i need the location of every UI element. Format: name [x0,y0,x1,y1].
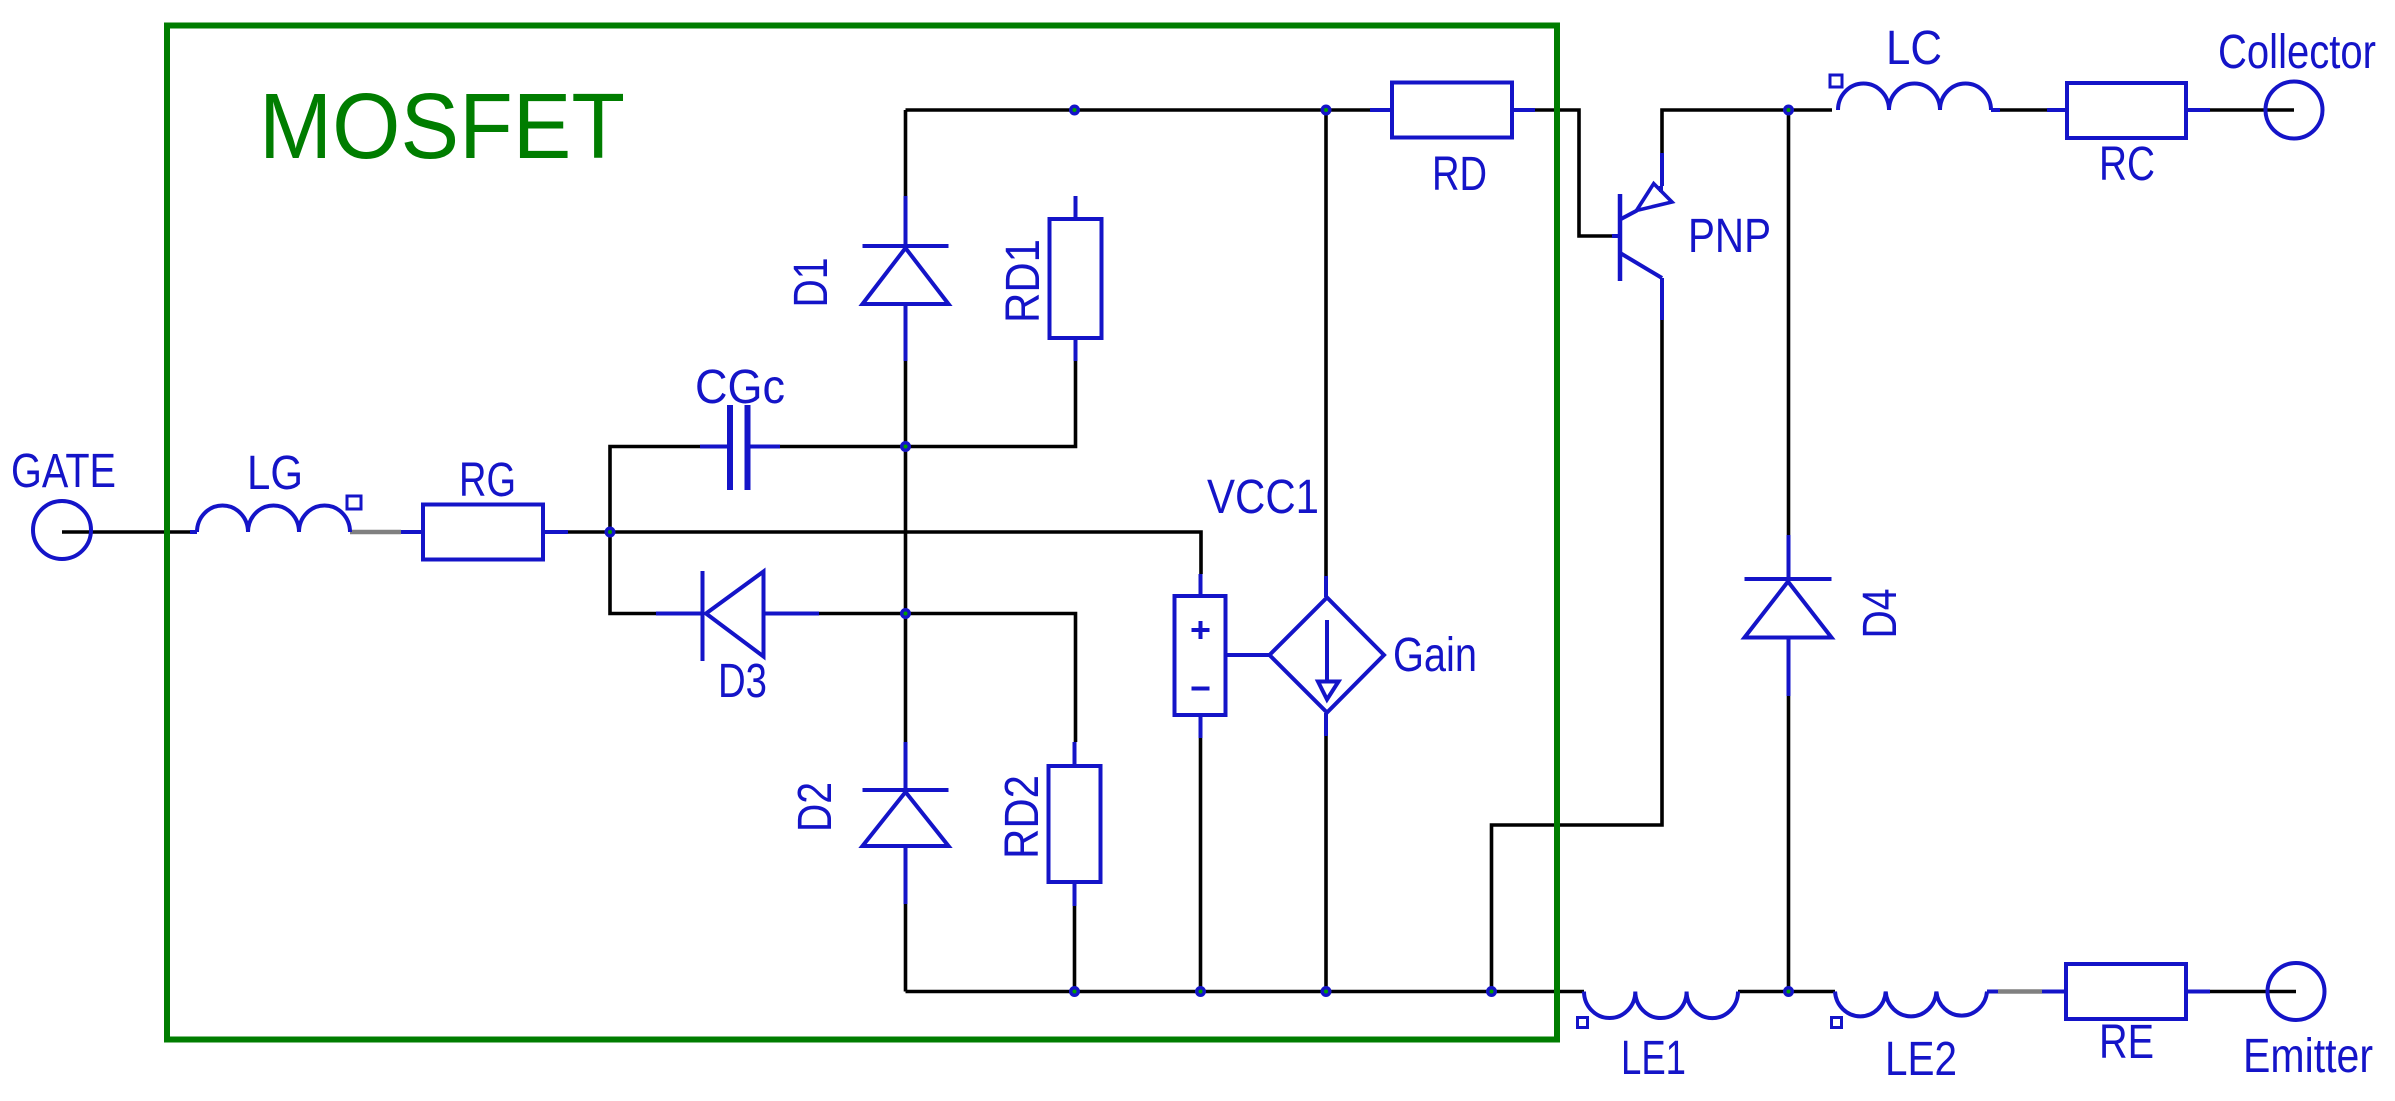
wire RD2 bottom to rail [1073,906,1077,992]
gray net segment LE2-RE [1998,989,2042,994]
port circle Collector [2266,82,2323,139]
LE1 polarity square [1578,1018,1588,1028]
wire gate node vertical (cap wire / D3 wire) [610,447,700,614]
wire RC to Collector [2210,108,2294,112]
svg-text:RG: RG [459,454,516,507]
lead RE left [2042,990,2066,994]
inductor LE2 [1835,992,1987,1017]
junction node cap/D1 [900,441,911,452]
lead RD1 bottom [1074,338,1078,361]
wire LC to RC [2000,108,2047,112]
svg-text:D3: D3 [718,655,767,708]
PNP base bar [1618,194,1623,281]
lead RD2 top [1073,742,1077,766]
LC polarity square [1830,75,1842,87]
source VCC1 box [1175,596,1226,715]
lead RG right [543,530,568,534]
lead VCC1 top [1199,574,1203,596]
lead LE2 right [1987,990,1998,994]
junction node LE1/LE2/D4 [1783,986,1794,997]
svg-text:D2: D2 [789,782,842,832]
resistor RD2 [1049,766,1101,882]
junction node gate (RG output) [605,527,616,538]
diode D3 [703,571,764,661]
port circle Emitter [2268,963,2325,1020]
lead PNP base [1612,234,1619,238]
lead D3 left [656,612,701,616]
transistor PNP [1620,184,1672,281]
diode D2 [863,790,949,846]
wire bottom rail [906,990,1585,994]
wire top rail [906,108,1371,112]
wire between LE1 and LE2 [1738,990,1835,994]
lead CGc left [700,445,727,449]
VCC1 minus sign [1192,687,1210,691]
wire D4 column upper [1787,110,1791,535]
resistor RG [423,505,543,560]
wire Gain column top [1324,110,1328,576]
resistor RE [2066,964,2186,1019]
VCC1 to Gain link [1226,653,1270,657]
inductor LC [1838,84,1991,111]
svg-text:PNP: PNP [1688,210,1771,263]
lead D4 bottom [1787,638,1791,697]
lead RD right [1512,108,1535,112]
junction node Gain bottom rail [1321,986,1332,997]
PNP collector diagonal [1621,254,1662,279]
inductor LG [197,506,350,533]
wire D1/D2 column top rail to D1 [904,110,908,196]
svg-text:LE2: LE2 [1885,1033,1957,1086]
junction node D3/D2 [900,608,911,619]
svg-text:LE1: LE1 [1621,1032,1686,1085]
resistor RD1 [1050,219,1102,338]
svg-text:CGc: CGc [695,361,785,414]
Gain arrow [1325,620,1329,680]
svg-text:LC: LC [1886,22,1942,75]
resistor RC [2067,83,2186,138]
wire RD to PNP base [1535,110,1612,236]
junction node emitter/D4/LC [1783,105,1794,116]
gray net segment LG-RG [350,530,401,535]
wire D3 to RD2 top corner [819,614,1076,743]
lead PNP collector [1660,278,1664,320]
inductor LE1 [1584,992,1738,1019]
lead PNP emitter [1660,153,1664,186]
svg-text:D1: D1 [785,258,838,308]
lead D1 top [904,196,908,246]
lead D3 right [764,612,820,616]
lead RD2 bottom [1073,882,1077,906]
lead RG left [401,530,423,534]
junction node RD1 top [1069,105,1080,116]
wire cap node to RD1 bottom [780,361,1076,447]
dependent source Gain diamond [1270,598,1385,713]
lead D2 top [904,742,908,790]
PNP emitter diagonal [1621,211,1637,220]
MOSFET subcircuit green boundary box [167,26,1557,1040]
wire PNP collector step down to rail [1492,320,1663,992]
svg-text:MOSFET: MOSFET [259,74,625,178]
junction node Gain top [1321,105,1332,116]
lead D4 top [1787,535,1791,579]
wire main gate rail RG to VCC1 corner [568,532,1201,574]
svg-text:RD2: RD2 [996,775,1049,859]
VCC1 plus sign [1192,621,1210,639]
diode D4 [1745,579,1832,638]
port circle GATE [33,501,91,559]
resistor RD [1392,83,1512,138]
svg-text:RE: RE [2099,1016,2154,1069]
lead RC right [2186,108,2210,112]
junction node RD2 bottom rail [1069,986,1080,997]
lead RD1 top [1074,196,1078,219]
wire D4 column lower [1787,696,1791,992]
svg-text:Emitter: Emitter [2243,1030,2373,1083]
svg-text:Gain: Gain [1393,629,1477,682]
lead VCC1 bottom [1199,715,1203,738]
PNP emitter up lead [1659,186,1663,192]
lead Gain top [1324,576,1328,597]
wire Gain bottom to rail [1324,736,1328,992]
svg-text:LG: LG [247,447,303,500]
PNP emitter arrow (open) [1637,184,1673,211]
LE2 polarity square [1832,1018,1842,1028]
wire GATE to LG [62,530,190,534]
svg-text:VCC1: VCC1 [1207,471,1319,524]
diode D1 [863,246,949,304]
lead RE right [2186,990,2210,994]
LG polarity square [347,496,361,509]
lead Gain bottom [1324,713,1328,736]
svg-text:Collector: Collector [2218,26,2376,79]
svg-text:GATE: GATE [11,445,116,498]
svg-text:RC: RC [2099,138,2155,191]
svg-text:RD1: RD1 [997,239,1050,323]
junction node collector-step rail [1486,986,1497,997]
lead RD left [1370,108,1392,112]
lead D1 bottom [904,304,908,361]
lead LC right [1991,108,2000,112]
lead CGc right [751,445,781,449]
svg-text:RD: RD [1432,148,1487,201]
wire D2 anode to bottom rail corner [904,904,908,992]
lead RC left [2047,108,2067,112]
wire PNP emitter node to LC [1662,110,1832,153]
wire D1 bottom through junctions to D2 top [904,361,908,742]
wire LE2 to RE gray gap leads [2210,990,2296,994]
junction node VCC1 bottom rail [1195,986,1206,997]
lead GATE [190,530,197,534]
wire VCC1 bottom to rail [1199,738,1203,992]
lead D2 bottom [904,846,908,904]
capacitor CGc plates [727,405,733,490]
svg-text:D4: D4 [1854,589,1907,639]
